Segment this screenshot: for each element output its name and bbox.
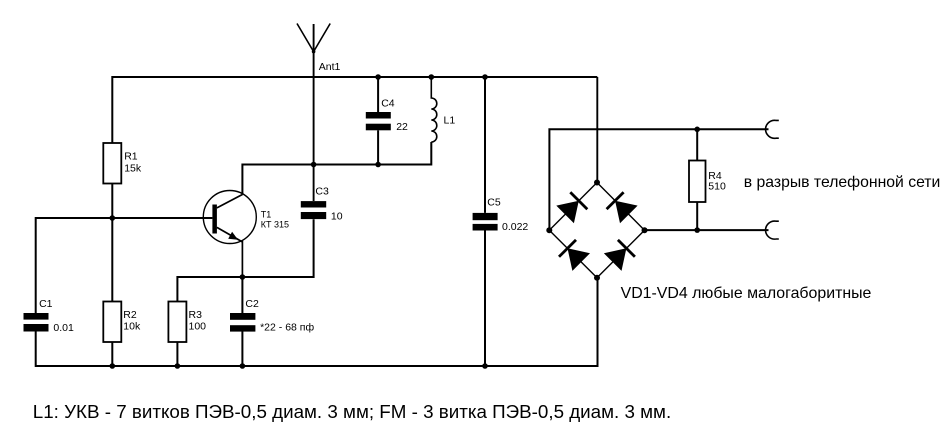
wire output top from bridge left vertex to terminal — [549, 129, 768, 230]
wire base bus y218 — [36, 218, 213, 313]
svg-text:C5: C5 — [487, 197, 501, 209]
svg-text:КТ 315: КТ 315 — [261, 220, 289, 230]
svg-text:R1: R1 — [124, 151, 138, 163]
svg-text:510: 510 — [708, 181, 726, 193]
diode VD3 bottom-left — [559, 240, 590, 271]
diode VD1 top-left — [556, 192, 587, 223]
svg-text:L1: L1 — [444, 115, 456, 127]
resistor R2 — [103, 302, 121, 343]
svg-text:T1: T1 — [261, 210, 272, 220]
svg-text:R3: R3 — [189, 309, 203, 321]
diode VD2 top-right — [607, 192, 638, 223]
svg-text:100: 100 — [189, 321, 207, 333]
transistor T1 base bar — [212, 205, 217, 234]
capacitor C3 plates — [301, 201, 326, 219]
transistor T1 circle — [203, 191, 256, 244]
antenna Ant1 — [297, 24, 330, 202]
capacitor C2 plates — [230, 313, 255, 332]
diode VD4 bottom-right — [604, 240, 635, 271]
wire C5 bottom riser — [484, 231, 486, 367]
wire C5 top riser — [484, 77, 486, 213]
terminal jack bottom — [766, 221, 779, 239]
svg-text:15k: 15k — [124, 163, 142, 175]
svg-text:C3: C3 — [315, 186, 329, 198]
svg-text:22: 22 — [396, 121, 408, 133]
wire ground bus y366 C1 to bridge bottom — [36, 278, 598, 366]
wire C4 top riser — [377, 77, 379, 112]
svg-text:10k: 10k — [123, 321, 141, 333]
capacitor C5 plates — [473, 213, 498, 231]
capacitor C1 plates — [24, 313, 49, 332]
svg-text:R2: R2 — [123, 309, 137, 321]
svg-text:C2: C2 — [245, 298, 259, 310]
svg-text:0.022: 0.022 — [502, 221, 528, 233]
wire C2 bottom riser — [241, 332, 243, 367]
diode bridge diamond — [549, 183, 644, 278]
resistor R3 — [168, 302, 186, 343]
svg-text:VD1-VD4 любые малогаборитные: VD1-VD4 любые малогаборитные — [621, 285, 872, 302]
svg-text:C1: C1 — [39, 298, 53, 310]
wire collector diagonal — [217, 194, 243, 208]
wire C2 top riser — [241, 277, 243, 313]
wire bridge top riser — [596, 77, 598, 183]
wire emitter diagonal and riser — [217, 227, 243, 277]
wire top bus from R1 top to bridge riser — [112, 77, 597, 143]
svg-text:C4: C4 — [381, 98, 395, 110]
transistor T1 emitter arrow — [228, 232, 238, 240]
svg-text:Ant1: Ant1 — [319, 61, 341, 73]
capacitor C4 plates — [366, 112, 391, 130]
svg-text:*22 - 68 пф: *22 - 68 пф — [260, 322, 314, 334]
wire emitter bus y277 R3 to C3 — [177, 219, 313, 301]
resistor R1 — [103, 143, 121, 184]
svg-text:L1: УКВ - 7 витков ПЭВ-0,5 диа: L1: УКВ - 7 витков ПЭВ-0,5 диам. 3 мм; F… — [33, 401, 671, 422]
svg-text:0.01: 0.01 — [53, 322, 74, 334]
wire output bottom from bridge right vertex to terminal — [645, 229, 769, 231]
inductor L1 coil — [431, 77, 437, 142]
terminal jack top — [766, 120, 779, 138]
wire R3 bottom riser — [176, 342, 178, 366]
svg-text:10: 10 — [331, 211, 343, 223]
wire R4 bottom riser — [696, 202, 698, 230]
wire R4 top riser — [696, 129, 698, 160]
wire R1-R2 riser — [111, 184, 113, 302]
wire R2 bottom riser — [111, 342, 113, 366]
resistor R4 — [689, 161, 706, 203]
wire C4 bottom riser — [377, 130, 379, 164]
wire mid bus y165 collector to L1 — [242, 142, 431, 194]
svg-text:в разрыв телефонной сети: в разрыв телефонной сети — [744, 174, 941, 191]
